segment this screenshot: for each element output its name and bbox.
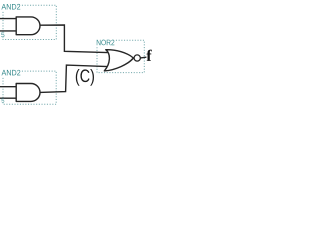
pin label top AND xyxy=(1,32,4,37)
wire input 1 of bottom AND xyxy=(0,86,16,88)
wire from top AND output to NOR input 1 xyxy=(40,25,108,53)
wire from bottom AND output to NOR input 2 xyxy=(40,65,108,92)
nor-gate output bubble xyxy=(134,55,140,61)
wire input 1 of top AND xyxy=(0,18,16,20)
pin label bottom AND xyxy=(1,98,4,102)
selection box around NOR2 xyxy=(97,40,144,72)
and-gate top AND2 body xyxy=(16,17,40,35)
selection box around bottom AND2 xyxy=(3,71,56,104)
and-gate bottom AND2 body xyxy=(16,84,40,102)
label f xyxy=(146,50,151,61)
white mask under AND2 bottom label xyxy=(0,69,22,77)
wire input 2 of top AND xyxy=(0,30,16,32)
label NOR2 xyxy=(97,40,115,46)
label (C) xyxy=(76,69,94,86)
white mask under AND2 top label xyxy=(0,3,22,11)
white mask under NOR2 label xyxy=(96,39,116,47)
selection box around top AND2 xyxy=(3,5,56,39)
wire NOR output to f xyxy=(140,56,146,59)
wire input 2 of bottom AND xyxy=(0,97,16,99)
nor-gate NOR2 body xyxy=(104,50,133,71)
label AND2 bottom xyxy=(2,70,21,76)
label AND2 top xyxy=(1,4,20,10)
